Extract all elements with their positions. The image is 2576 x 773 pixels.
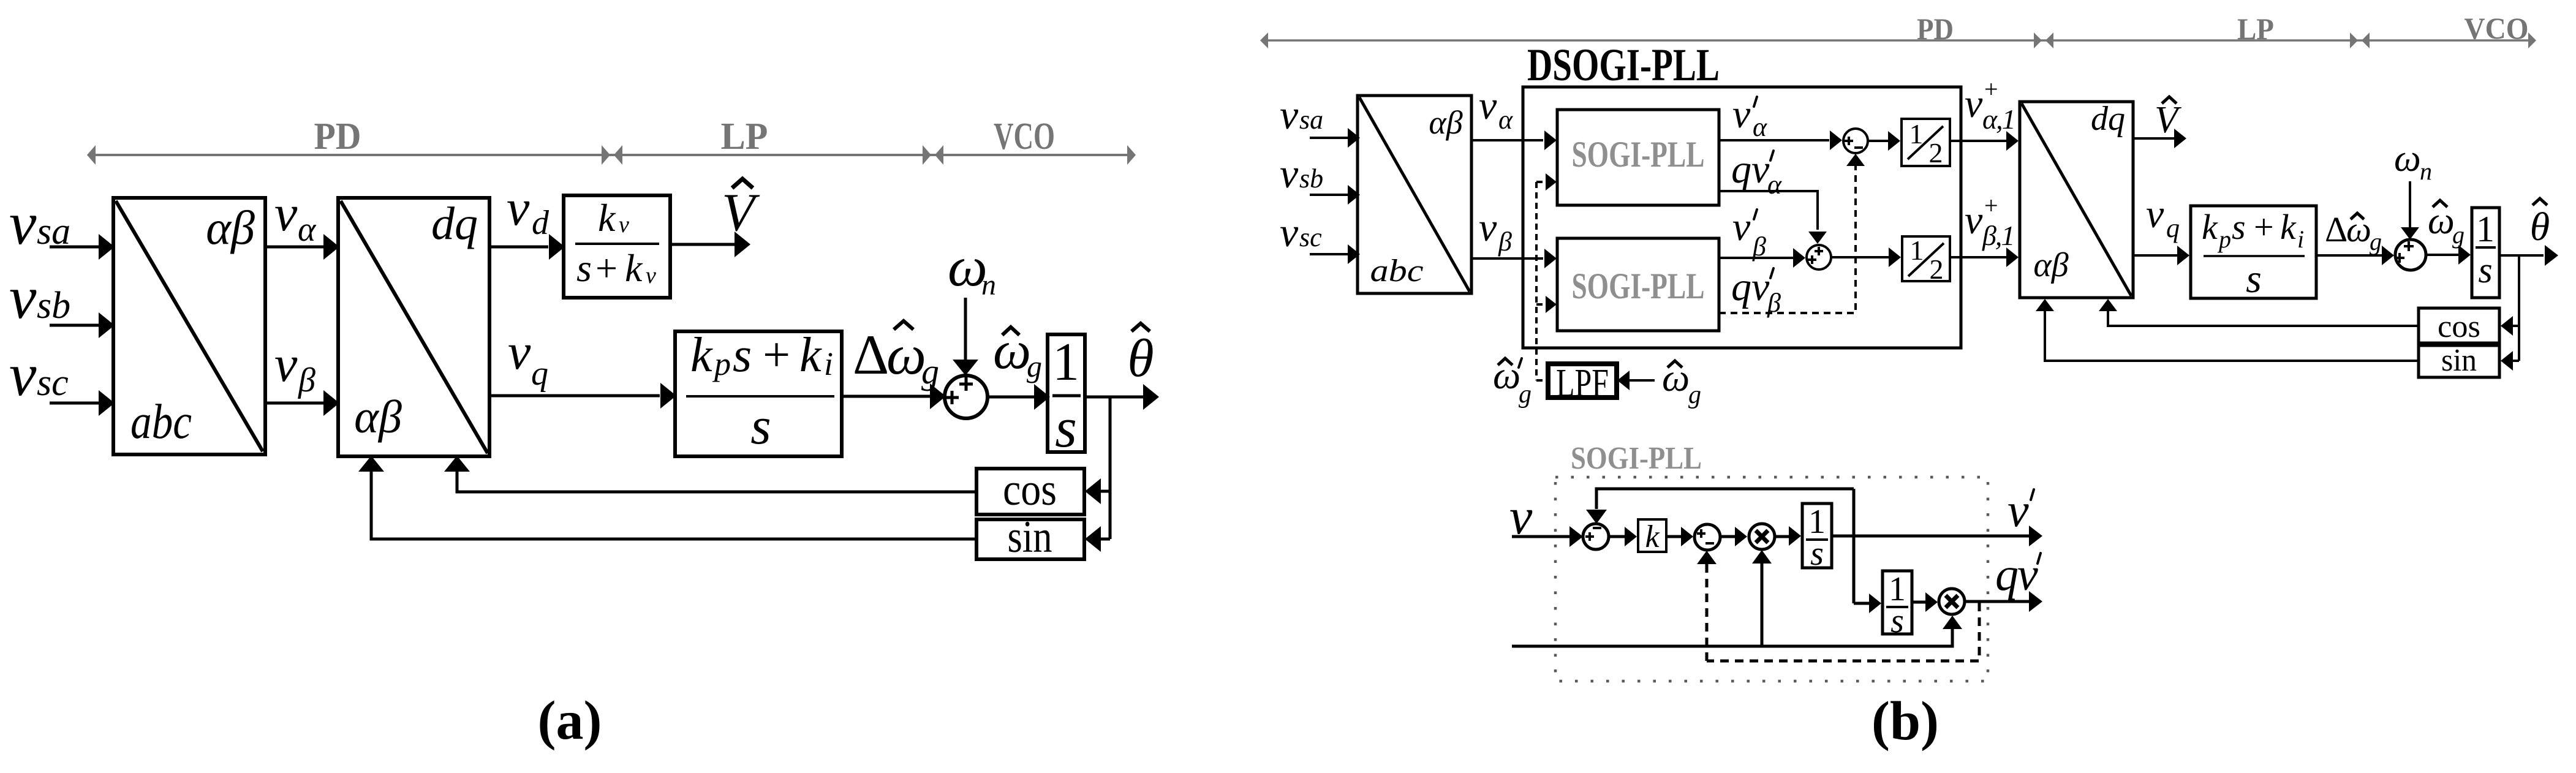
label v_q (b) <box>2146 192 2180 243</box>
wire qv-prime-beta dashed (b) <box>1719 154 1865 313</box>
label v-plus-alpha1 (b) <box>1965 75 2015 135</box>
svg-text:abc: abc <box>130 395 192 449</box>
svg-text:s: s <box>2478 250 2492 290</box>
wire v-plus-beta1 to dq block (b) <box>1950 247 2019 267</box>
block integrator 1/s first (detail) <box>1802 503 1832 573</box>
wire sum to half gain lower (b) <box>1831 247 1901 267</box>
wire integrator2 to multiplier2 (detail) <box>1912 592 1938 612</box>
wire sum to half gain upper (b) <box>1868 131 1900 151</box>
section indicator line PD/LP/VCO (b) <box>1260 32 2536 48</box>
wire into sin block (a) <box>1085 526 1110 552</box>
svg-text:g: g <box>2452 221 2465 249</box>
svg-text:dq: dq <box>2091 100 2125 138</box>
wire omega-hat-g to integrator (b) <box>2426 245 2471 265</box>
svg-text:d: d <box>532 204 550 242</box>
wire v_beta (a) <box>265 390 339 416</box>
title DSOGI-PLL (b) <box>1527 40 1720 91</box>
svg-text:LP: LP <box>2237 12 2274 46</box>
label qv-prime-alpha (b) <box>1731 147 1782 200</box>
svg-text:v: v <box>508 323 531 380</box>
label VCO (b) <box>2465 11 2529 45</box>
wire into sin block (b) <box>2501 351 2519 371</box>
block LPF (b) <box>1548 361 1617 405</box>
svg-text:LPF: LPF <box>1556 361 1609 405</box>
svg-text:Δ: Δ <box>853 323 889 386</box>
svg-text:sc: sc <box>37 362 69 404</box>
svg-text:s: s <box>1055 396 1077 459</box>
svg-text:2: 2 <box>1929 137 1943 168</box>
block kv/(s+kv) low-pass filter (a) <box>564 195 670 298</box>
summing junction 1 (detail) <box>1583 524 1609 549</box>
wire v-prime-beta (b) <box>1719 248 1805 268</box>
svg-text:1: 1 <box>1909 118 1924 149</box>
svg-text:v: v <box>274 185 298 242</box>
wire theta-hat output (b) <box>2499 245 2558 266</box>
block integrator 1/s (b) <box>2472 208 2499 298</box>
block cos (a) <box>976 465 1084 515</box>
block integrator 1/s (a) <box>1048 333 1085 459</box>
svg-text:q: q <box>531 355 548 393</box>
wire v-prime-alpha (b) <box>1719 130 1842 150</box>
svg-text:v: v <box>9 189 37 257</box>
wire dashed frequency feed vertical (b) <box>1535 182 1538 380</box>
svg-text:αβ: αβ <box>2033 246 2068 284</box>
svg-text:β,1: β,1 <box>1982 220 2014 251</box>
svg-text:+: + <box>1984 75 1998 103</box>
wire v_alpha (b) <box>1471 130 1557 150</box>
block SOGI-PLL upper (b) <box>1557 110 1719 205</box>
label v_alpha (a) <box>274 185 317 249</box>
wire feedback vertical from theta-hat (a) <box>1109 397 1112 539</box>
svg-text:β: β <box>1767 288 1781 318</box>
svg-text:+: + <box>595 246 618 290</box>
svg-text:v: v <box>1280 150 1299 197</box>
wire vsa input (a) <box>50 234 115 260</box>
svg-text:g: g <box>1688 381 1701 409</box>
block abc to alpha-beta transform (b) <box>1358 96 1471 293</box>
svg-text:s: s <box>2232 207 2246 247</box>
svg-text:PD: PD <box>1917 12 1954 46</box>
wire v input (detail) <box>1512 526 1583 547</box>
block half gain lower (b) <box>1902 235 1950 285</box>
wire delta-omega to summing junction (a) <box>842 383 946 409</box>
caption (a) <box>538 690 602 751</box>
label theta-hat (b) <box>2530 198 2550 249</box>
summing junction circle (b) <box>2395 239 2426 270</box>
wire vsc input (b) <box>1310 244 1360 264</box>
svg-text:v: v <box>1280 209 1299 255</box>
container box DSOGI-PLL (b) <box>1523 87 1961 348</box>
svg-text:(b): (b) <box>1872 691 1939 752</box>
wire qv-prime-alpha (b) <box>1719 191 1827 244</box>
block PI controller (kp s + ki)/s (a) <box>675 328 842 456</box>
svg-text:k: k <box>598 196 616 239</box>
svg-text:sin: sin <box>1008 512 1052 562</box>
svg-text:g: g <box>1027 349 1042 383</box>
label v_d (a) <box>507 179 550 242</box>
block sin (a) <box>976 512 1084 562</box>
svg-text:n: n <box>2420 157 2432 185</box>
svg-text:Δ: Δ <box>2325 209 2347 249</box>
svg-text:αβ: αβ <box>354 391 402 443</box>
svg-text:SOGI-PLL: SOGI-PLL <box>1572 266 1705 306</box>
label v_q (a) <box>508 323 548 393</box>
wire gain k to sum2 (detail) <box>1666 527 1693 546</box>
wire omega_n input (b) <box>2401 181 2419 239</box>
summing junction lower ++ (b) <box>1807 245 1831 270</box>
wire vsc input (a) <box>50 390 115 416</box>
label v-prime (detail) <box>2008 483 2034 537</box>
label v-prime-alpha (b) <box>1732 92 1767 142</box>
block gain k (detail) <box>1638 519 1666 554</box>
block cos (b) <box>2419 308 2499 344</box>
svg-text:DSOGI-PLL: DSOGI-PLL <box>1527 40 1720 91</box>
svg-text:VCO: VCO <box>994 116 1055 157</box>
svg-text:(a): (a) <box>538 690 602 751</box>
svg-text:LP: LP <box>721 116 768 157</box>
svg-text:v: v <box>1280 91 1299 138</box>
svg-text:qv: qv <box>1731 147 1770 192</box>
block PI controller (b) <box>2191 206 2316 301</box>
label VCO (a) <box>994 116 1055 157</box>
svg-text:θ: θ <box>1127 329 1154 388</box>
svg-text:qv: qv <box>1995 549 2038 600</box>
svg-text:α: α <box>1767 170 1782 200</box>
svg-text:α,1: α,1 <box>1982 104 2015 135</box>
dotted boundary box SOGI-PLL detail (b) <box>1555 477 1988 681</box>
svg-text:v: v <box>1479 83 1497 128</box>
svg-text:cos: cos <box>1003 465 1057 515</box>
wire dashed qv-prime feedback (detail) <box>1707 603 1979 661</box>
label V-hat (a) <box>722 179 760 243</box>
svg-text:ω: ω <box>886 323 926 386</box>
svg-text:β: β <box>1498 227 1512 257</box>
label LP (a) <box>721 116 768 157</box>
wire sum2 to multiplier 1 (detail) <box>1720 527 1747 546</box>
wire dashed negative feedback into sum2 (detail) <box>1697 551 1717 661</box>
node vsa (b) <box>1280 91 1323 138</box>
svg-text:ω: ω <box>2394 138 2421 179</box>
svg-text:1: 1 <box>1052 333 1079 392</box>
label omega-hat-g (b) <box>2428 200 2465 249</box>
svg-text:+: + <box>763 328 790 382</box>
svg-text:PD: PD <box>314 116 361 157</box>
summing junction upper +- (b) <box>1843 129 1868 153</box>
wire multiplier1 to integrator1 (detail) <box>1775 526 1801 546</box>
wire vsb input (b) <box>1310 185 1360 205</box>
svg-text:ω: ω <box>2428 200 2455 242</box>
svg-text:VCO: VCO <box>2465 11 2529 45</box>
svg-text:s: s <box>2246 257 2262 301</box>
svg-text:g: g <box>1519 380 1532 409</box>
svg-text:α: α <box>1753 112 1767 142</box>
label delta-omega-hat-g (b) <box>2325 209 2382 255</box>
svg-text:v: v <box>507 179 530 236</box>
svg-text:v: v <box>1732 205 1751 249</box>
label v-plus-beta1 (b) <box>1965 192 2014 251</box>
wire v_d (a) <box>489 234 565 260</box>
wire cos feedback to dq block (a) <box>444 456 976 492</box>
svg-text:+: + <box>1984 192 1998 219</box>
label qv-prime (detail) <box>1995 549 2041 600</box>
block sin (b) <box>2419 343 2499 378</box>
svg-text:k: k <box>2202 207 2218 247</box>
wire sum1 to gain k (detail) <box>1609 527 1637 546</box>
svg-text:s: s <box>576 246 592 290</box>
multiplier junction 2 (detail) <box>1939 589 1965 614</box>
wire sin feedback to dq block (b) <box>2036 299 2419 361</box>
wire vertical v-prime junction line (detail) <box>1853 489 1856 603</box>
wire dashed into upper SOGI (b) <box>1536 173 1557 190</box>
svg-text:β: β <box>298 361 315 399</box>
wire sin feedback to dq block (a) <box>358 456 976 539</box>
svg-text:v: v <box>646 263 656 288</box>
wire vsb input (a) <box>50 312 115 338</box>
svg-text:β: β <box>1752 232 1766 262</box>
svg-text:k: k <box>690 328 713 382</box>
section indicator line PD/LP/VCO (a) <box>87 145 1136 165</box>
summing junction 2 (detail) <box>1694 524 1720 550</box>
wire feedback from v-prime to summing junction 1 (detail) <box>1586 489 1854 524</box>
svg-text:θ: θ <box>2530 205 2550 249</box>
label delta-omega-hat-g (a) <box>853 321 939 391</box>
svg-text:i: i <box>2297 225 2304 253</box>
wire omega input line (detail) <box>1512 616 1962 646</box>
svg-text:i: i <box>824 345 833 382</box>
block alpha-beta to dq transform (b) <box>2020 100 2133 298</box>
svg-text:q: q <box>2166 213 2180 243</box>
svg-text:k: k <box>2280 207 2297 247</box>
label v-prime-beta (b) <box>1732 205 1766 262</box>
block alpha-beta to dq transform (a) <box>338 198 489 456</box>
multiplier junction 1 (detail) <box>1749 524 1775 549</box>
label qv-prime-beta (b) <box>1731 265 1781 318</box>
caption (b) <box>1872 691 1939 752</box>
svg-text:v: v <box>1732 92 1751 137</box>
wire v_q (b) <box>2133 246 2189 265</box>
wire v-prime output (detail) <box>1832 526 2042 546</box>
wire omega-hat-g to integrator (a) <box>988 384 1050 410</box>
node v input (detail) <box>1509 488 1533 545</box>
label omega_n (b) <box>2394 138 2432 185</box>
label theta-hat (a) <box>1127 323 1154 388</box>
label PD (b) <box>1917 12 1954 46</box>
wire V-hat output (a) <box>670 232 750 257</box>
svg-text:v: v <box>1965 81 1983 126</box>
label omega_n (a) <box>948 235 996 301</box>
svg-text:qv: qv <box>1731 265 1770 309</box>
svg-text:v: v <box>2146 192 2164 236</box>
svg-text:SOGI-PLL: SOGI-PLL <box>1571 441 1702 476</box>
svg-text:s: s <box>733 328 752 382</box>
svg-text:sin: sin <box>2441 343 2477 378</box>
wire dashed into lower SOGI (b) <box>1536 296 1557 313</box>
node vsb (a) <box>9 263 70 331</box>
svg-text:s: s <box>1890 602 1904 640</box>
node vsc (a) <box>9 341 69 409</box>
label omega-hat-g (a) <box>993 321 1042 383</box>
label omega-hat-g-prime (b) <box>1493 353 1532 409</box>
svg-text:SOGI-PLL: SOGI-PLL <box>1572 134 1705 175</box>
svg-text:v: v <box>9 341 37 409</box>
wire dashed to LPF (b) <box>1536 379 1548 382</box>
svg-text:g: g <box>2370 228 2382 255</box>
wire v-plus-alpha1 to dq block (b) <box>1950 131 2019 151</box>
svg-text:sc: sc <box>1299 222 1322 252</box>
svg-text:p: p <box>2217 225 2231 253</box>
svg-text:v: v <box>2008 483 2029 537</box>
node vsb (b) <box>1280 150 1323 197</box>
svg-text:n: n <box>981 269 996 301</box>
svg-text:dq: dq <box>431 198 478 249</box>
title SOGI-PLL detail (b) <box>1571 441 1702 476</box>
wire v_alpha (a) <box>265 234 339 260</box>
wire delta-omega to summing junction (b) <box>2316 246 2394 265</box>
label omega-hat-g at LPF (b) <box>1662 356 1701 409</box>
node vsa (a) <box>9 189 70 257</box>
svg-text:V: V <box>722 183 760 243</box>
svg-text:2: 2 <box>1930 254 1944 285</box>
wire omega_n input (a) <box>953 298 978 375</box>
svg-text:αβ: αβ <box>1429 104 1462 141</box>
wire v_beta (b) <box>1471 249 1557 268</box>
svg-text:v: v <box>619 212 629 238</box>
node vsc (b) <box>1280 209 1322 255</box>
wire feedback vertical from theta-hat (b) <box>2518 255 2520 361</box>
svg-text:v: v <box>274 336 298 393</box>
wire V-hat output (b) <box>2133 129 2186 148</box>
block abc to alpha-beta transform (a) <box>113 198 265 454</box>
block half gain upper (b) <box>1902 118 1950 168</box>
block integrator 1/s second (detail) <box>1883 570 1912 640</box>
label v_beta (a) <box>274 336 315 399</box>
svg-text:abc: abc <box>1370 254 1424 288</box>
wire into cos block (b) <box>2501 316 2519 336</box>
svg-text:αβ: αβ <box>206 201 255 254</box>
svg-text:v: v <box>1479 205 1497 250</box>
wire vsa input (b) <box>1310 128 1360 148</box>
svg-text:s: s <box>750 396 771 455</box>
wire omega branch to multiplier1 (detail) <box>1752 550 1772 646</box>
label LP (b) <box>2237 12 2274 46</box>
svg-text:k: k <box>799 328 822 382</box>
label PD (a) <box>314 116 361 157</box>
svg-text:sb: sb <box>37 285 70 326</box>
wire v_q (a) <box>489 383 676 409</box>
svg-text:k: k <box>1645 519 1660 554</box>
svg-text:1: 1 <box>1910 235 1924 266</box>
svg-text:v: v <box>1965 198 1983 243</box>
wire theta-hat output (a) <box>1085 384 1159 410</box>
svg-text:cos: cos <box>2438 309 2480 344</box>
wire qv-prime output (detail) <box>1965 591 2042 612</box>
wire into cos block (a) <box>1085 478 1110 504</box>
svg-text:α: α <box>298 211 317 249</box>
svg-text:v: v <box>9 263 37 331</box>
svg-text:sa: sa <box>1299 105 1323 135</box>
wire branch to integrator2 (detail) <box>1854 594 1881 613</box>
wire omega-hat-g into LPF (b) <box>1617 371 1655 390</box>
label V-hat (b) <box>2155 97 2181 141</box>
block SOGI-PLL lower (b) <box>1557 238 1719 331</box>
svg-text:k: k <box>625 246 643 290</box>
label v_alpha (b) <box>1479 83 1513 135</box>
svg-text:sb: sb <box>1299 164 1323 194</box>
svg-text:p: p <box>712 345 731 382</box>
svg-text:s: s <box>1810 535 1824 573</box>
wire cos feedback to dq block (b) <box>2099 299 2419 326</box>
svg-text:α: α <box>1498 105 1513 135</box>
svg-text:V: V <box>2155 99 2181 141</box>
label v_beta (b) <box>1479 205 1512 257</box>
svg-text:1: 1 <box>2476 209 2495 249</box>
svg-text:+: + <box>2254 207 2274 247</box>
svg-text:g: g <box>921 352 939 391</box>
summing junction circle (a) <box>945 375 988 418</box>
